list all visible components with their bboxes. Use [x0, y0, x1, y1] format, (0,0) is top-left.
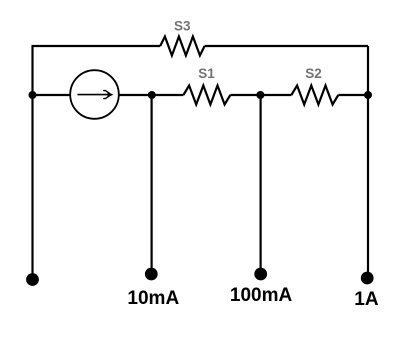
- wire middle bus: current source to S1: [119, 94, 184, 96]
- terminal dot bottom-left: [26, 273, 39, 286]
- current source U1: [70, 70, 119, 119]
- svg-text:1A: 1A: [354, 289, 379, 310]
- svg-text:S2: S2: [305, 66, 322, 81]
- node junction left bus: [29, 91, 37, 99]
- wire 100mA branch vertical: [260, 95, 262, 268]
- terminal dot 100mA: [254, 268, 267, 281]
- resistor S2: [291, 86, 338, 105]
- wire 10mA branch vertical: [151, 95, 153, 268]
- wire left vertical (top-left corner down to bottom-left terminal): [31, 46, 33, 279]
- wire top horizontal right segment: [205, 45, 368, 47]
- resistor S3: [160, 37, 204, 56]
- node junction 100mA branch: [256, 91, 264, 99]
- resistor S1: [183, 86, 230, 105]
- wire right vertical (top-right corner down to 1A terminal): [367, 46, 369, 272]
- terminal dot 10mA: [145, 268, 158, 281]
- svg-text:100mA: 100mA: [230, 285, 293, 306]
- wire middle bus: S2 to right node: [338, 94, 368, 96]
- wire top horizontal left segment: [32, 45, 161, 47]
- wire middle bus: S1 to S2: [230, 94, 291, 96]
- node junction 10mA branch: [148, 91, 156, 99]
- svg-text:S1: S1: [198, 66, 215, 81]
- node junction right bus: [364, 91, 372, 99]
- terminal dot 1A: [361, 272, 374, 285]
- svg-text:10mA: 10mA: [127, 288, 179, 309]
- wire middle bus: left node to current source: [33, 94, 71, 96]
- svg-text:S3: S3: [174, 19, 191, 34]
